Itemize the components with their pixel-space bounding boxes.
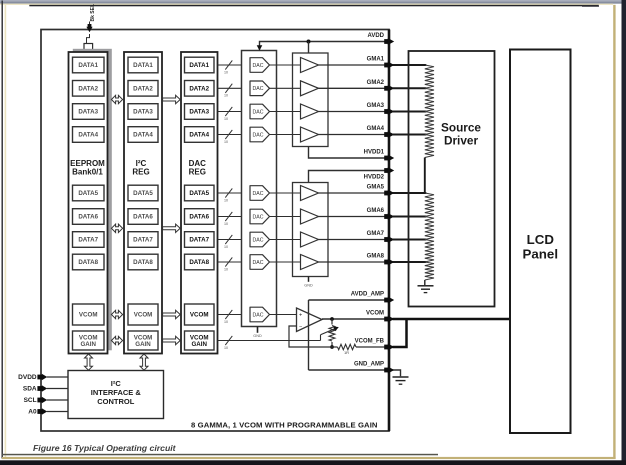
svg-text:REG: REG: [189, 167, 206, 176]
wire GMA6 to ladder: [393, 216, 427, 218]
wire DAC1 to op-amp A1: [270, 64, 301, 66]
svg-text:DATA2: DATA2: [78, 86, 98, 93]
DAC U8: [250, 255, 270, 270]
svg-text:DATA8: DATA8: [78, 259, 98, 266]
pin pad GMA7: [384, 236, 394, 243]
resistor ladder R8: [425, 262, 434, 280]
wire Bk SEL to EEPROM bank-select input: [87, 34, 90, 44]
wire GMA1 output: [319, 64, 387, 66]
svg-text:DATA3: DATA3: [78, 109, 98, 116]
wire DAC7 to op-amp A7: [270, 239, 301, 241]
wire VCOM output: [322, 318, 387, 320]
wire DAC REG VCOM to DAC: [218, 310, 242, 324]
block I2C INTERFACE & CONTROL: [68, 371, 164, 419]
wire AVDD rail: [260, 42, 389, 50]
wire GMA8 output: [319, 261, 387, 263]
pin pad AVDD: [384, 38, 394, 45]
svg-text:DAC: DAC: [253, 312, 264, 318]
pin pad GMA3: [384, 108, 394, 115]
bus arrow EEPROM-I2C at y=228.3: [111, 224, 122, 232]
svg-text:GMA3: GMA3: [367, 103, 385, 109]
register block I2C-REG DATA1: [128, 57, 158, 73]
register block I2C-REG DATA3: [128, 104, 158, 120]
wire GMA5 output: [319, 192, 387, 194]
svg-text:10: 10: [224, 94, 228, 98]
register block I2C-REG DATA5: [128, 185, 158, 201]
register block I2C-REG DATA4: [128, 127, 158, 143]
wire GMA7 to ladder: [393, 239, 427, 241]
op-amp A3: [301, 104, 319, 119]
register block DAC-REG DATA4: [185, 127, 215, 143]
pin pad HVDD1: [384, 155, 394, 162]
register block EEPROM U1 DATA8: [73, 254, 105, 270]
op-amp bank 2 ground stub: [304, 277, 313, 288]
ground GND_AMP: [393, 370, 409, 384]
svg-text:HVDD2: HVDD2: [364, 175, 385, 181]
register block EEPROM U1 DATA5: [73, 185, 105, 201]
resistor ladder R1: [425, 65, 434, 88]
register block I2C-REG DATA7: [128, 232, 158, 248]
svg-text:DATA1: DATA1: [189, 62, 209, 69]
svg-text:8 GAMMA, 1 VCOM WITH PROGRAMMA: 8 GAMMA, 1 VCOM WITH PROGRAMMABLE GAIN: [191, 420, 378, 429]
wire SCL to I2C interface: [47, 399, 68, 401]
EEPROM bank-select input box: [84, 44, 93, 54]
DAC U3: [250, 104, 270, 119]
register block DAC-REG DATA1: [185, 57, 215, 73]
bus arrow I2C-DACREG at y=99.5: [163, 95, 181, 103]
svg-text:DATA4: DATA4: [133, 132, 153, 139]
register block I2C-REG VCOM: [128, 304, 158, 325]
svg-text:VCOM: VCOM: [79, 312, 98, 319]
svg-text:Figure 16 Typical Operating ci: Figure 16 Typical Operating circuit: [33, 443, 177, 453]
wire DVDD to I2C interface: [47, 376, 68, 378]
node AVDD junction: [307, 40, 311, 44]
svg-text:GAIN: GAIN: [191, 341, 207, 348]
svg-text:10: 10: [224, 320, 228, 324]
svg-text:DATA3: DATA3: [189, 109, 209, 116]
svg-text:Panel: Panel: [523, 246, 558, 261]
resistor ladder R7: [425, 240, 434, 263]
wire GMA6 output: [319, 216, 387, 218]
register column box DAC-REG: [181, 52, 218, 354]
node VCOM output junction: [330, 317, 334, 321]
pin pad GMA1: [384, 62, 394, 69]
svg-text:LCD: LCD: [527, 232, 555, 247]
op-amp A2: [301, 81, 319, 96]
wire VCOM GAIN wiper control: [218, 327, 339, 350]
svg-text:DATA8: DATA8: [133, 259, 153, 266]
register block DAC-REG DATA8: [185, 254, 215, 270]
op-amp A7: [301, 232, 319, 247]
block LCD Panel: [510, 50, 571, 434]
svg-text:DATA7: DATA7: [78, 237, 98, 244]
wire DAC3 to op-amp A3: [270, 111, 301, 113]
wire AVDD_AMP: [309, 299, 387, 301]
resistor 1R: [332, 344, 386, 355]
svg-text:DATA6: DATA6: [189, 214, 209, 221]
register block DAC-REG DATA3: [185, 104, 215, 120]
bus arrow I2CREG-I2C interface: [140, 354, 148, 370]
register block DAC-REG DATA7: [185, 232, 215, 248]
pin pad A0: [37, 408, 47, 414]
svg-text:10: 10: [224, 140, 228, 144]
op-amp U-VCOM buffer: [297, 308, 323, 332]
svg-text:DATA8: DATA8: [189, 259, 209, 266]
svg-text:DATA4: DATA4: [189, 132, 209, 139]
pin pad GND_AMP: [384, 367, 394, 374]
op-amp bank 2 box: [293, 183, 329, 277]
svg-text:DAC: DAC: [253, 191, 264, 197]
register block DAC-REG DATA6: [185, 209, 215, 225]
svg-text:DAC: DAC: [253, 237, 264, 243]
svg-text:GND: GND: [253, 334, 262, 338]
svg-text:Driver: Driver: [444, 134, 479, 148]
op-amp A1: [301, 58, 319, 73]
pin pad DVDD: [37, 374, 47, 380]
svg-text:DATA4: DATA4: [78, 132, 98, 139]
svg-text:Bk SEL: Bk SEL: [90, 4, 96, 22]
DAC U6: [250, 209, 270, 224]
op-amp A6: [301, 209, 319, 224]
resistor ladder R2: [425, 88, 434, 111]
column label DAC REG: [189, 159, 207, 176]
register block EEPROM U1 DATA4: [73, 127, 105, 143]
DAC U1: [250, 58, 270, 73]
node feedback junction: [330, 345, 334, 349]
register block I2C-REG DATA6: [128, 209, 158, 225]
register block EEPROM U1 DATA3: [73, 104, 105, 120]
svg-text:AVDD_AMP: AVDD_AMP: [351, 292, 384, 298]
svg-text:GMA1: GMA1: [367, 57, 385, 63]
wire DAC2 to op-amp A2: [270, 87, 301, 89]
register block I2C-REG DATA2: [128, 81, 158, 97]
svg-text:10: 10: [224, 245, 228, 249]
wire DAC6 to op-amp A6: [270, 216, 301, 218]
DAC U4: [250, 127, 270, 142]
resistor ladder R6: [425, 217, 434, 240]
DAC U7: [250, 232, 270, 247]
register block DAC-REG VCOM GAIN: [185, 331, 215, 350]
outer circuit boundary box: [41, 30, 389, 432]
DAC bank box: [242, 51, 277, 327]
wire op-amp bank1 supply to HVDD1: [309, 147, 387, 159]
wire DAC REG DATA6 to DAC: [218, 212, 242, 226]
DAC U2: [250, 81, 270, 96]
wire DAC REG DATA2 to DAC: [218, 84, 242, 98]
svg-text:DAC: DAC: [253, 132, 264, 138]
wire GMA2 output: [319, 87, 387, 89]
DAC U5: [250, 186, 270, 201]
bus arrow EEPROM-I2C interface: [85, 354, 93, 370]
pin pad SCL: [37, 397, 47, 403]
resistor ladder R5: [425, 193, 434, 217]
wire GMA4 to ladder: [393, 134, 427, 136]
pin pad GMA8: [384, 259, 394, 266]
register block EEPROM U1 VCOM GAIN: [73, 331, 105, 350]
svg-text:DATA6: DATA6: [78, 214, 98, 221]
svg-text:DATA6: DATA6: [133, 214, 153, 221]
wire ladder mid segment: [424, 158, 426, 194]
svg-text:VCOM: VCOM: [134, 312, 153, 319]
wire GMA5 to ladder: [393, 192, 427, 194]
wire DAC REG DATA5 to DAC: [218, 188, 242, 202]
svg-text:DATA1: DATA1: [133, 62, 153, 69]
DAC bank ground stub: [253, 327, 262, 338]
wire VCOM to LCD panel: [393, 318, 512, 321]
pin pad GMA4: [384, 131, 394, 138]
potentiometer R-gain: [329, 319, 335, 347]
wire feedback to inverting input: [289, 326, 332, 347]
svg-text:GMA2: GMA2: [367, 80, 385, 86]
wire GMA1 to ladder: [393, 64, 427, 66]
svg-text:GAIN: GAIN: [80, 341, 96, 348]
svg-text:DATA5: DATA5: [133, 190, 153, 197]
svg-text:REG: REG: [132, 167, 149, 176]
register column box EEPROM U1: [69, 52, 108, 354]
DAC U-VCOM: [250, 307, 270, 322]
pin pad GMA6: [384, 213, 394, 220]
svg-text:Source: Source: [441, 121, 481, 135]
wire GMA4 output: [319, 134, 387, 136]
svg-text:10: 10: [224, 346, 228, 350]
register block DAC-REG DATA2: [185, 81, 215, 97]
pin pad HVDD2: [384, 167, 394, 174]
wire GND_AMP: [309, 369, 387, 371]
svg-text:DAC: DAC: [253, 214, 264, 220]
wire GMA3 output: [319, 111, 387, 113]
op-amp A5: [301, 186, 319, 201]
svg-text:DAC: DAC: [253, 63, 264, 69]
pin pad VCOM: [384, 316, 394, 323]
svg-text:DATA1: DATA1: [78, 62, 98, 69]
bus arrow EEPROM-I2C at y=314.5: [111, 310, 122, 318]
wire GMA8 to ladder: [393, 261, 427, 263]
svg-text:GMA8: GMA8: [367, 254, 385, 260]
wire DAC4 to op-amp A4: [270, 134, 301, 136]
svg-text:CONTROL: CONTROL: [97, 397, 134, 406]
register block EEPROM U1 DATA2: [73, 81, 105, 97]
pin pad GMA5: [384, 190, 394, 197]
svg-text:A0: A0: [28, 409, 37, 416]
svg-text:10: 10: [224, 267, 228, 271]
wire HVDD2 to op-amp bank2 supply: [309, 171, 387, 183]
EEPROM column shadow: [73, 49, 112, 351]
block Source Driver: [409, 51, 495, 307]
wire GMA7 output: [319, 239, 387, 241]
bus arrow I2C-DACREG at y=340.5: [163, 336, 181, 344]
svg-text:VCOM: VCOM: [366, 311, 384, 317]
svg-text:Bank0/1: Bank0/1: [72, 167, 103, 176]
register block EEPROM U1 DATA6: [73, 209, 105, 225]
svg-text:DAC: DAC: [253, 86, 264, 92]
op-amp bank 1 box: [293, 53, 329, 147]
ground ladder bottom: [418, 280, 434, 293]
pin pad GMA2: [384, 85, 394, 92]
svg-text:DATA5: DATA5: [189, 190, 209, 197]
register block EEPROM U1 VCOM: [73, 304, 105, 325]
register block I2C-REG DATA8: [128, 254, 158, 270]
op-amp A4: [301, 127, 319, 142]
register block EEPROM U1 DATA7: [73, 232, 105, 248]
svg-text:DATA7: DATA7: [189, 237, 209, 244]
wire SDA to I2C interface: [47, 388, 68, 390]
svg-text:GMA4: GMA4: [367, 126, 385, 132]
pin pad VCOM_FB: [384, 344, 394, 351]
arrow AVDD into DAC bank: [257, 45, 263, 50]
svg-text:−: −: [299, 325, 302, 331]
wire GMA3 to ladder: [393, 111, 427, 113]
register block EEPROM U1 DATA1: [73, 57, 105, 73]
resistor ladder R3: [425, 112, 434, 135]
svg-text:HVDD1: HVDD1: [364, 150, 385, 156]
wire DAC5 to op-amp A5: [270, 192, 301, 194]
wire AVDD to op-amp bank 1: [308, 42, 310, 54]
svg-text:VCOM_FB: VCOM_FB: [355, 339, 385, 345]
svg-text:I²C: I²C: [111, 379, 122, 388]
bus arrow I2C-DACREG at y=314.5: [163, 310, 181, 318]
bus arrow I2C-DACREG at y=228.3: [163, 224, 181, 232]
node Bk SEL junction arrow pad: [86, 24, 92, 32]
wire DAC REG DATA1 to DAC: [218, 60, 242, 74]
svg-text:DAC: DAC: [253, 109, 264, 115]
svg-text:1R: 1R: [344, 350, 349, 355]
svg-text:DVDD: DVDD: [18, 374, 37, 381]
svg-text:10: 10: [224, 198, 228, 202]
svg-text:DAC: DAC: [253, 260, 264, 266]
bus arrow EEPROM-I2C at y=99.5: [111, 95, 122, 103]
svg-text:VCOM: VCOM: [190, 312, 209, 319]
wire DAC REG DATA3 to DAC: [218, 107, 242, 121]
svg-text:SDA: SDA: [23, 386, 37, 393]
wire A0 to I2C interface: [47, 411, 68, 413]
wire GMA2 to ladder: [393, 87, 427, 89]
column label EEPROM Bank0/1: [70, 159, 105, 176]
svg-text:DATA2: DATA2: [133, 86, 153, 93]
svg-text:AVDD: AVDD: [367, 33, 384, 39]
bus arrow EEPROM-I2C at y=340.5: [111, 336, 122, 344]
column label I²C REG: [132, 159, 149, 176]
svg-text:GND_AMP: GND_AMP: [354, 362, 384, 368]
svg-text:GMA7: GMA7: [367, 231, 385, 237]
wire Bk SEL to node: [89, 22, 91, 27]
svg-text:GAIN: GAIN: [135, 341, 151, 348]
svg-text:10: 10: [224, 222, 228, 226]
register block DAC-REG VCOM: [185, 304, 215, 325]
svg-text:DATA5: DATA5: [78, 190, 98, 197]
wire DAC REG DATA4 to DAC: [218, 130, 242, 144]
register block I2C-REG VCOM GAIN: [128, 331, 158, 350]
pin pad SDA: [37, 385, 47, 391]
svg-text:DATA3: DATA3: [133, 109, 153, 116]
register block DAC-REG DATA5: [185, 185, 215, 201]
svg-text:GMA5: GMA5: [367, 185, 385, 191]
svg-text:10: 10: [224, 70, 228, 74]
pin pad AVDD_AMP: [384, 297, 394, 304]
svg-text:GMA6: GMA6: [367, 208, 385, 214]
svg-text:SCL: SCL: [24, 397, 37, 404]
svg-text:INTERFACE &: INTERFACE &: [91, 388, 142, 397]
svg-text:DATA7: DATA7: [133, 237, 153, 244]
wire VCOM DAC to buffer input: [270, 314, 297, 316]
wire DAC REG DATA7 to DAC: [218, 235, 242, 249]
svg-text:DATA2: DATA2: [189, 86, 209, 93]
wire DAC8 to op-amp A8: [270, 261, 301, 263]
register column box I2C-REG: [124, 52, 162, 354]
wire buffer supply rail AVDD_AMP to GND_AMP: [308, 300, 310, 370]
svg-text:GND: GND: [304, 283, 313, 287]
op-amp A8: [301, 255, 319, 270]
resistor ladder R4: [425, 135, 434, 158]
svg-text:+: +: [299, 313, 302, 319]
svg-text:10: 10: [224, 117, 228, 121]
wire DAC REG DATA8 to DAC: [218, 257, 242, 271]
wire VCOM_FB sense: [393, 320, 407, 347]
